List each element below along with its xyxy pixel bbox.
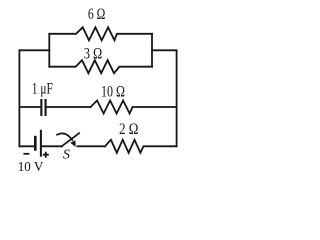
wire: middle row segment between capacitor and 10 ohm resistor bbox=[47, 106, 91, 108]
svg-text:3 Ω: 3 Ω bbox=[84, 46, 103, 63]
wire: bottom row left segment to battery bbox=[19, 145, 34, 147]
battery negative short plate bbox=[34, 136, 37, 151]
resistor 2 ohm (bottom row) bbox=[105, 140, 177, 153]
svg-text:6 Ω: 6 Ω bbox=[88, 6, 106, 23]
switch arrowhead bbox=[70, 140, 75, 147]
resistor 10 ohm (middle row) bbox=[91, 101, 177, 114]
wire: switch to 2 ohm resistor bbox=[77, 145, 105, 147]
battery positive tall plate bbox=[40, 130, 42, 157]
svg-text:2 Ω: 2 Ω bbox=[119, 121, 139, 138]
capacitor C 1uF right plate bbox=[45, 99, 47, 116]
resistor 6 ohm (top branch) bbox=[49, 27, 152, 40]
svg-text:10 V: 10 V bbox=[18, 160, 44, 175]
switch S lever bbox=[62, 133, 79, 146]
wire: middle row left segment bbox=[19, 106, 40, 108]
battery minus sign bbox=[23, 153, 29, 155]
svg-text:S: S bbox=[63, 148, 70, 163]
wire: parallel box left edge bbox=[48, 34, 50, 67]
wire: parallel box right edge bbox=[151, 34, 153, 67]
switch closing-arrow arc bbox=[56, 133, 73, 140]
wire: battery to switch bbox=[42, 145, 62, 147]
svg-text:10 Ω: 10 Ω bbox=[101, 83, 125, 100]
wire: right vertical main wire bbox=[176, 50, 178, 146]
wire: left vertical main wire bbox=[18, 50, 20, 146]
svg-text:1 μF: 1 μF bbox=[32, 81, 53, 98]
battery plus sign horizontal bar bbox=[43, 154, 49, 156]
resistor 3 ohm (bottom branch) bbox=[49, 60, 152, 73]
battery plus sign vertical bar bbox=[45, 152, 47, 158]
wire: right connector from parallel box bbox=[152, 49, 177, 51]
capacitor C 1uF left plate bbox=[40, 99, 42, 116]
wire: left connector to parallel box bbox=[19, 49, 49, 51]
